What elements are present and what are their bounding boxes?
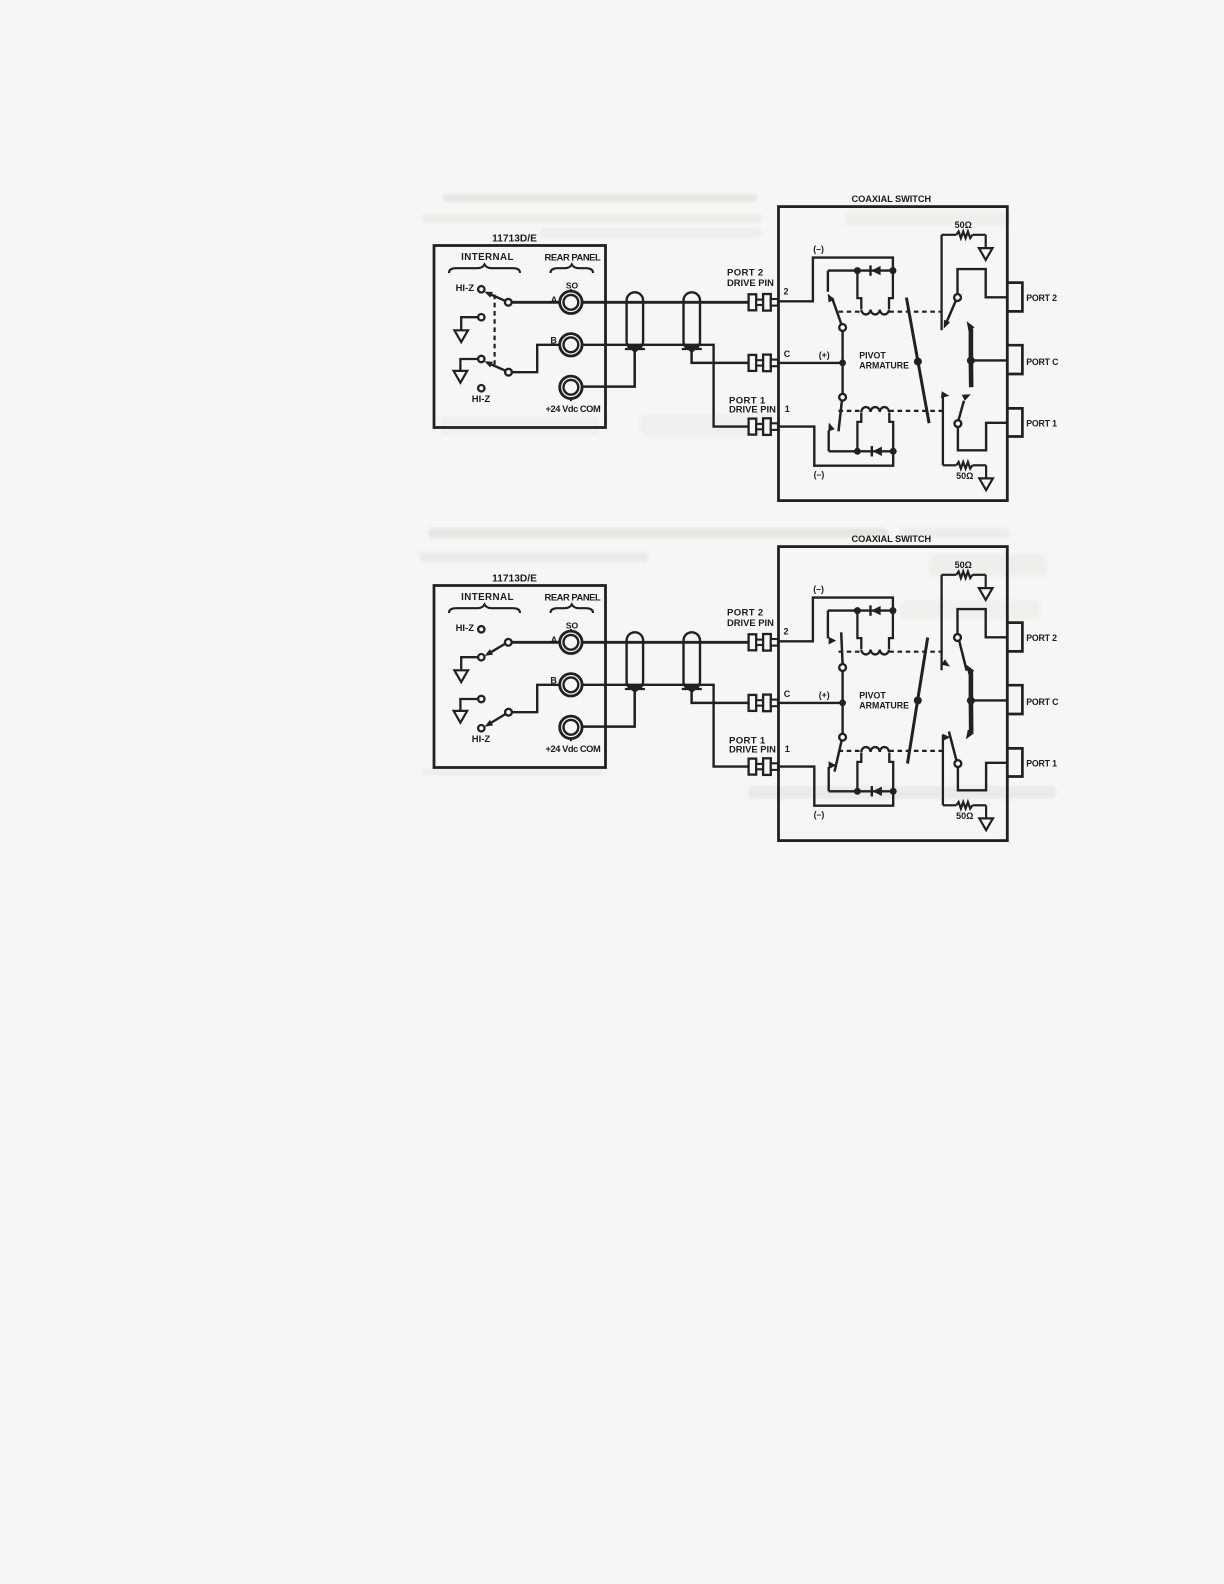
wire: diode rail K2 [828,269,893,271]
wire: port 1 termination contact line [942,394,944,465]
cable 1 (coax, shield grounded) [625,292,645,353]
wire: diode rail K1 [829,790,894,792]
ground (lower termination) [979,478,993,490]
svg-text:COAXIAL SWITCH: COAXIAL SWITCH [852,534,932,544]
svg-text:PORT 2: PORT 2 [1026,633,1057,643]
wire: port 2 contact to PORT 2 [958,269,1008,297]
wire: port C node to PORT C [971,359,1007,361]
contact arrow (open) [829,637,837,645]
wire: C junction to K1 pivot [841,363,843,394]
junction [889,267,896,274]
port 1 moving contact arm (to C, closed) [958,394,970,420]
switch S2 arm (thrown to HI-Z) [487,713,507,725]
diode CR1 (across coil K1) [872,446,882,456]
armature pivot dot [914,697,922,705]
pivot armature (diagonal) [908,638,928,764]
svg-text:1: 1 [785,744,790,754]
cable 1 (coax, shield grounded) [625,632,645,693]
wire: diode rail K1 [829,450,894,452]
wire: resistor to ground (upper) [985,235,987,248]
svg-text:REAR PANEL: REAR PANEL [545,591,601,602]
svg-text:REAR PANEL: REAR PANEL [545,251,601,262]
PORT 2 connector [1007,623,1022,652]
svg-text:11713D/E: 11713D/E [492,234,537,245]
tick below connector COM [570,739,572,742]
resistor 50Ω (lower termination) [943,802,986,809]
drive pin C connector [749,695,778,712]
port C armature arm (lower, closed) [969,361,974,388]
junction [854,607,861,614]
pivot armature (diagonal) [906,298,929,424]
svg-text:1: 1 [785,404,790,414]
grounded contact (lower switch) [478,696,484,702]
PORT C connector [1007,685,1022,714]
resistor 50Ω (lower termination) [943,462,986,469]
ground (upper) [454,670,468,682]
junction [854,448,861,455]
connector A (SO) [560,291,582,313]
svg-text:A: A [551,295,558,305]
diode CR1 (across coil K1) [872,786,882,796]
wire: (-) contact for armature arm K2 [827,271,829,292]
svg-text:PIVOT: PIVOT [859,690,886,700]
wire A: connector A to drive pin 2 [582,641,749,644]
wire: port 1 termination contact line [942,735,944,805]
junction (C to both relay pivots) [839,700,846,707]
ground (upper termination) [979,588,993,600]
svg-text:SO: SO [566,280,579,290]
contact arrow (open) [828,423,834,432]
diode CR2 (across coil K2) [871,265,881,275]
wire: terminal 1 to (-) rail of coil K1 [779,767,894,806]
port 2 moving contact arm (to 50Ω, closed) [944,301,956,329]
connector B [560,674,582,696]
connector B [560,334,582,356]
connector A (SO) [560,631,582,653]
relay K1 arm pivot contact [839,394,846,401]
svg-text:2: 2 [783,626,788,636]
PORT C connector [1007,345,1022,374]
mechanical link (dashed) armature to K1 arm [839,750,862,752]
svg-text:DRIVE PIN: DRIVE PIN [727,277,774,288]
coil K2 [857,272,893,314]
junction [890,788,897,795]
junction [889,607,896,614]
contact arrow on 50Ω line (open) [941,391,949,398]
drive pin 2 connector [749,634,778,651]
switch S1 arm (thrown to ground) [487,643,507,655]
cable 2 (coax, shield grounded) [682,632,702,693]
brace under REAR PANEL [551,264,594,273]
contact HI-Z (lower switch, open) [478,385,484,391]
svg-text:HI-Z: HI-Z [456,623,475,634]
svg-text:HI-Z: HI-Z [456,283,475,294]
port C armature arm (upper, closed) [967,665,975,701]
ground (lower termination) [979,818,993,830]
driver unit 11713D/E box (bottom diagram) [434,586,606,768]
svg-text:HI-Z: HI-Z [472,734,491,745]
relay K2 arm pivot contact [839,664,846,671]
PORT 1 connector [1007,408,1022,436]
relay K1 armature contact arm (closed) [835,741,842,772]
junction [854,267,861,274]
wire C: cable 2 shield to drive pin C [692,351,749,363]
wire: lower grounded contact to ground [460,359,478,371]
svg-text:ARMATURE: ARMATURE [859,361,909,371]
svg-text:ARMATURE: ARMATURE [859,701,909,711]
mechanical link (dashed) armature to K2 arm [839,651,862,653]
coil K1 [857,747,893,790]
svg-text:(+): (+) [819,350,830,360]
wire: port 2 termination contact line [940,575,942,670]
contact HI-Z (upper switch, open) [478,626,484,632]
ground (upper) [454,330,468,342]
wire: (-) contact for armature arm K2 [827,611,829,639]
svg-text:DRIVE PIN: DRIVE PIN [727,617,774,628]
wire: K2 pivot to C junction [841,331,843,363]
wire: terminal 1 to (-) rail of coil K1 [779,427,894,466]
svg-text:PORT C: PORT C [1026,697,1059,707]
svg-text:C: C [784,689,791,699]
svg-text:(–): (–) [813,584,824,594]
svg-text:(–): (–) [814,469,825,479]
wire: terminal C stub [779,362,843,364]
wire: K2 pivot to C junction [841,671,843,703]
junction (C to both relay pivots) [839,360,846,367]
tick below connector COM [570,399,572,402]
wire: resistor to ground (lower) [985,805,987,818]
wire: resistor to ground (lower) [985,465,987,478]
drive pin 1 connector [749,418,778,435]
svg-text:+24 Vdc COM: +24 Vdc COM [546,744,601,754]
port 1 moving contact arm (to 50Ω, closed) [949,732,957,762]
wire: terminal 2 to (-) rail of coil K2 [779,598,893,642]
relay K2 armature contact arm (closed) [828,294,842,326]
mechanical link (dashed) S1-S2 [494,295,496,365]
resistor 50Ω (upper termination) [942,572,986,579]
svg-text:(–): (–) [814,809,825,819]
svg-text:PORT 2: PORT 2 [1026,293,1057,303]
svg-text:SO: SO [566,620,579,630]
relay K1 arm pivot contact [839,734,846,741]
relay K2 armature contact arm (open) [841,632,842,664]
svg-text:INTERNAL: INTERNAL [461,592,514,603]
connector +24 Vdc COM [560,376,582,398]
port 2 contact [954,634,961,641]
armature pivot dot [914,358,922,366]
contact arrow on 50Ω line (open) [941,659,950,666]
wire: (-) contact for armature arm K1 [828,431,830,452]
wire: upper grounded contact to ground [461,317,478,330]
junction: port C node [967,357,975,365]
brace under INTERNAL [449,264,520,273]
port 1 contact [955,760,962,767]
drive pin 2 connector [749,294,778,311]
contact HI-Z (upper switch, selected) [478,286,484,292]
wire COM: connector COM to cable 1 shield [582,351,635,387]
switch S1 pivot contact [505,299,512,306]
wire: diode rail K2 [828,609,893,611]
svg-text:HI-Z: HI-Z [472,394,491,405]
wire: (-) contact for armature arm K1 [828,767,830,791]
contact arrow on 50Ω line (closed) [942,734,950,742]
junction: port C node [967,697,975,705]
port 2 moving contact arm (to C, closed) [959,641,967,671]
grounded contact (lower switch) [478,356,484,362]
relay K1 armature contact arm (open) [839,401,842,432]
resistor 50Ω (upper termination) [942,232,986,239]
junction [854,788,861,795]
wire: S1 pivot to connector A [512,301,560,304]
wire B: connector B to drive pin 1 [582,345,749,427]
switch S1 arm (thrown to HI-Z) [487,293,507,302]
wire B: connector B to drive pin 1 [582,685,749,767]
grounded contact (upper switch) [478,654,484,660]
svg-text:INTERNAL: INTERNAL [461,252,514,263]
svg-text:2: 2 [783,286,788,296]
wire: C junction to K1 pivot [841,703,843,734]
wire: S2 pivot to connector B [512,685,560,712]
wire: terminal 2 to (-) rail of coil K2 [779,258,893,302]
wire: S1 pivot to connector A [512,641,560,644]
PORT 2 connector [1007,283,1022,312]
switch S2 pivot contact [505,709,512,716]
mechanical link (dashed) armature to K1 arm [839,410,862,412]
wire COM: connector COM to cable 1 shield [582,691,635,727]
wire A: connector A to drive pin 2 [582,301,749,304]
wire: port 2 termination contact line [940,235,942,330]
wire: port 1 contact to PORT 1 [958,423,1007,451]
wire: port 1 contact to PORT 1 [958,763,1007,791]
connector +24 Vdc COM [560,716,582,738]
drive pin C connector [749,355,778,372]
grounded contact (upper switch) [478,314,484,320]
svg-text:(+): (+) [819,690,830,700]
coil K2 [857,612,893,654]
svg-text:PORT 1: PORT 1 [1026,419,1057,429]
svg-text:PORT 1: PORT 1 [1026,759,1057,769]
wire: lower grounded contact to ground [460,699,478,711]
ground (lower) [454,711,468,723]
svg-text:50Ω: 50Ω [956,471,973,481]
wire: resistor to ground (upper) [985,575,987,588]
svg-text:COAXIAL SWITCH: COAXIAL SWITCH [852,194,932,204]
svg-text:PIVOT: PIVOT [859,350,886,360]
junction [890,448,897,455]
cable 2 (coax, shield grounded) [682,292,702,353]
port C armature arm (upper, open) [967,321,975,360]
svg-text:PORT C: PORT C [1026,357,1059,367]
brace under INTERNAL [449,604,520,613]
PORT 1 connector [1007,748,1022,776]
diode CR2 (across coil K2) [871,605,881,615]
svg-text:C: C [784,349,791,359]
coil K1 [857,407,893,450]
port 2 contact [954,294,961,301]
ground (upper termination) [979,248,993,260]
contact HI-Z (lower switch, selected) [478,725,484,731]
switch S2 arm (thrown to ground contact) [487,363,507,372]
svg-text:A: A [551,635,558,645]
svg-text:DRIVE PIN: DRIVE PIN [729,403,776,414]
wire: port 2 contact to PORT 2 [958,609,1008,637]
svg-text:DRIVE PIN: DRIVE PIN [729,743,776,754]
svg-text:(–): (–) [813,244,824,254]
brace under REAR PANEL [551,604,594,613]
svg-text:+24 Vdc COM: +24 Vdc COM [546,404,601,414]
svg-text:50Ω: 50Ω [956,811,973,821]
wire: upper grounded contact to ground [461,657,478,670]
ground (lower) [454,371,468,383]
relay K2 arm pivot contact [839,324,846,331]
driver unit 11713D/E box (top diagram) [434,246,606,428]
coaxial switch box (bottom diagram) [779,547,1008,841]
wire: terminal C stub [779,702,843,704]
tick from SO to connector A [570,289,572,291]
wire C: cable 2 shield to drive pin C [692,691,749,703]
port C armature arm (lower, open) [966,701,974,740]
port 1 contact [955,420,962,427]
drive pin 1 connector [749,758,778,775]
contact arrow (closed) [829,761,837,769]
switch S2 pivot contact [505,369,512,376]
wire: S2 pivot to connector B [512,345,560,372]
tick from SO to connector A [570,629,572,631]
coaxial switch box (top diagram) [779,207,1008,501]
wire: port C node to PORT C [971,699,1007,701]
mechanical link (dashed) armature to K2 arm [839,311,862,313]
svg-text:11713D/E: 11713D/E [492,574,537,585]
switch S1 pivot contact [505,639,512,646]
